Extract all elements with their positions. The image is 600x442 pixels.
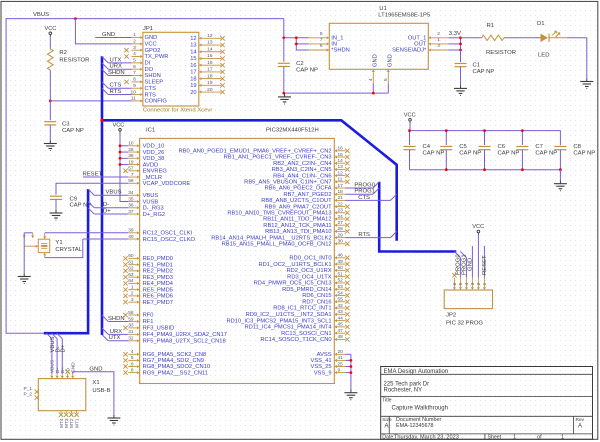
svg-text:12: 12 — [190, 36, 196, 42]
svg-text:RE4_PMD4: RE4_PMD4 — [143, 281, 174, 287]
svg-text:25: 25 — [338, 361, 344, 367]
wire X1 GND pin to ground — [73, 372, 114, 415]
svg-text:LED: LED — [538, 53, 549, 59]
svg-text:PROG1: PROG1 — [354, 189, 375, 195]
svg-text:15: 15 — [207, 53, 213, 59]
svg-text:TX_PWR: TX_PWR — [145, 54, 169, 60]
wire RESET to MCLR pin — [83, 176, 128, 178]
bus USB VBUS/D-/D+ vertical and bottom — [44, 189, 88, 333]
capacitor C8 — [554, 131, 595, 170]
voltage regulator U1 outline — [329, 23, 428, 69]
svg-text:_MCLR: _MCLR — [142, 175, 163, 181]
svg-text:VCC: VCC — [404, 113, 416, 119]
wire LED to ground — [567, 38, 587, 79]
svg-text:3.3V: 3.3V — [449, 31, 461, 37]
svg-text:UTX: UTX — [110, 57, 122, 63]
svg-text:RD1_OC2__U1RTS_BCLK1: RD1_OC2__U1RTS_BCLK1 — [259, 262, 332, 268]
svg-text:VBUS: VBUS — [143, 193, 159, 199]
svg-text:VCAP_VDDCORE: VCAP_VDDCORE — [143, 181, 191, 187]
wire VBUS to JP1 pin 2 — [75, 19, 131, 44]
svg-text:RF5_PMA8_U2TX_SCL2_CN18: RF5_PMA8_U2TX_SCL2_CN18 — [143, 339, 226, 345]
svg-text:63: 63 — [128, 272, 134, 278]
svg-text:37: 37 — [128, 209, 134, 215]
svg-text:CAP NP: CAP NP — [296, 67, 318, 73]
net label SHDN at JP1 — [108, 70, 125, 76]
svg-text:19: 19 — [207, 80, 213, 86]
wire U1 IN tie — [296, 38, 308, 50]
ground below cap bank — [554, 181, 567, 191]
U1 left pin names — [331, 36, 350, 54]
svg-text:16: 16 — [190, 63, 196, 69]
reference designator JP2 — [446, 313, 456, 319]
svg-text:RB1_AN1_PGEC1_VREF-_CVREF-_CN3: RB1_AN1_PGEC1_VREF-_CVREF-_CN3 — [224, 155, 332, 161]
svg-text:3: 3 — [470, 282, 476, 285]
ground below crystal — [18, 273, 31, 283]
value label Connector for Xtend Xcevr — [143, 108, 212, 114]
svg-text:ENVREG: ENVREG — [143, 169, 168, 175]
wire CTS bus entry to JP1 — [102, 82, 132, 88]
svg-text:39: 39 — [128, 228, 134, 234]
svg-text:CAP NP: CAP NP — [62, 128, 84, 134]
svg-text:RB12_AN12_TCK_PMA11: RB12_AN12_TCK_PMA11 — [263, 223, 331, 229]
bus junction at IC1 top rail — [100, 119, 103, 122]
svg-text:26: 26 — [128, 147, 134, 153]
wire VBUS bus exit to X1 — [46, 333, 52, 374]
LED D1 — [537, 21, 567, 59]
svg-text:CTS: CTS — [110, 83, 122, 89]
svg-text:RD3_OC4_U1TX: RD3_OC4_U1TX — [287, 274, 332, 280]
USB connector X1 outline — [38, 379, 86, 411]
svg-text:GPO2: GPO2 — [145, 48, 161, 54]
wire cap bank to ground — [559, 170, 561, 181]
ground below C1 — [454, 85, 467, 95]
svg-text:EMA-12345678: EMA-12345678 — [396, 423, 433, 429]
svg-text:URX: URX — [110, 64, 123, 70]
ground below IC1 VSS — [344, 390, 357, 400]
svg-text:URX: URX — [110, 329, 123, 335]
IC1 left pin stubs — [128, 144, 139, 374]
svg-text:RB7_AN7_PGED2: RB7_AN7_PGED2 — [283, 192, 331, 198]
svg-text:Connector for Xtend Xcevr: Connector for Xtend Xcevr — [143, 108, 212, 114]
net label RTS at IC1 — [358, 232, 370, 238]
svg-text:22: 22 — [338, 201, 344, 207]
svg-text:Date:: Date: — [382, 435, 394, 441]
IC1 right pin names — [179, 149, 333, 377]
wire D- bus entry to IC1 — [88, 202, 128, 208]
svg-text:Thursday, March 23, 2023: Thursday, March 23, 2023 — [394, 435, 459, 441]
svg-text:VCC: VCC — [145, 42, 157, 48]
wire UTX bus entry to IC1 RF pin — [102, 335, 128, 341]
svg-text:RC15_OSC2_CLKO: RC15_OSC2_CLKO — [143, 237, 196, 243]
net label GND at X1 — [89, 366, 102, 372]
svg-text:6: 6 — [320, 43, 323, 49]
svg-text:C7: C7 — [535, 144, 543, 150]
svg-text:C3: C3 — [62, 122, 70, 128]
title block address — [384, 381, 430, 393]
svg-text:30: 30 — [338, 239, 344, 245]
svg-text:VDD_26: VDD_26 — [143, 150, 165, 156]
JP1 left pin numbers 1-11 — [130, 32, 136, 101]
svg-text:10: 10 — [128, 141, 134, 147]
svg-text:CRYSTAL: CRYSTAL — [55, 247, 82, 253]
JP2 no-connect X pin 6 — [452, 273, 456, 277]
svg-text:DO: DO — [145, 67, 154, 73]
svg-text:RD8_IC1_RTCC_INT1: RD8_IC1_RTCC_INT1 — [273, 306, 331, 312]
svg-text:11: 11 — [338, 177, 343, 183]
net label D+ at IC1 — [103, 208, 111, 214]
wire U1 outputs tie — [448, 38, 460, 50]
svg-text:GND: GND — [373, 54, 379, 67]
svg-text:1: 1 — [561, 435, 564, 441]
svg-text:61: 61 — [128, 259, 134, 265]
svg-text:14: 14 — [338, 158, 344, 164]
svg-text:U1: U1 — [379, 6, 387, 12]
IC1 right no-connect X marks — [345, 149, 349, 342]
svg-text:C9: C9 — [70, 196, 78, 202]
svg-text:Capture Walkthrough: Capture Walkthrough — [392, 406, 448, 412]
svg-text:Title: Title — [382, 398, 391, 404]
JP1 no-connect X pins 3 4 8 — [124, 48, 128, 84]
svg-text:60: 60 — [128, 253, 134, 259]
svg-text:8: 8 — [131, 367, 134, 373]
svg-text:18: 18 — [207, 73, 213, 79]
svg-text:PIC32MX440F512H: PIC32MX440F512H — [266, 128, 319, 134]
svg-text:50: 50 — [338, 265, 344, 271]
reference designator U1 — [379, 6, 387, 12]
svg-text:4: 4 — [368, 78, 374, 81]
svg-text:UTX: UTX — [109, 335, 121, 341]
svg-text:9: 9 — [133, 83, 136, 89]
svg-text:RD10_IC3_PMCS2_PMA15_INT3_SCL1: RD10_IC3_PMCS2_PMA15_INT3_SCL1 — [226, 318, 331, 324]
svg-text:52: 52 — [338, 278, 344, 284]
svg-text:RB8_AN8_U2CTS_C1OUT: RB8_AN8_U2CTS_C1OUT — [261, 198, 332, 204]
svg-text:24: 24 — [338, 214, 344, 220]
svg-text:16: 16 — [338, 146, 344, 152]
svg-text:D-: D- — [55, 368, 61, 373]
svg-text:R2: R2 — [59, 50, 67, 56]
svg-text:RD7_CN16: RD7_CN16 — [302, 299, 331, 305]
power symbol VCC at IC1 — [113, 122, 125, 133]
svg-text:12: 12 — [207, 33, 213, 39]
svg-text:CONFIG: CONFIG — [145, 99, 168, 105]
svg-text:VCC: VCC — [45, 26, 57, 32]
net label RESET at MCLR — [83, 171, 103, 177]
net label CTS at IC1 — [358, 195, 370, 201]
svg-text:SENSE/ADJ*: SENSE/ADJ* — [392, 48, 427, 54]
IC1 left pin numbers — [128, 141, 134, 374]
svg-text:17: 17 — [190, 70, 196, 76]
svg-text:RD4_PMWR_OC5_IC5_CN13: RD4_PMWR_OC5_IC5_CN13 — [254, 281, 332, 287]
svg-text:6: 6 — [131, 361, 134, 367]
svg-text:Rochester, NY: Rochester, NY — [384, 388, 423, 394]
svg-text:RTS: RTS — [145, 92, 157, 98]
svg-text:5: 5 — [131, 355, 134, 361]
wire RTS bus entry to JP1 — [102, 88, 132, 94]
svg-text:2: 2 — [476, 282, 482, 285]
svg-text:RD0_OC1_INT0: RD0_OC1_INT0 — [289, 256, 331, 262]
svg-text:Size: Size — [382, 417, 392, 423]
svg-text:VBUS: VBUS — [50, 360, 56, 373]
value label PIC 32 PROG — [446, 320, 483, 326]
resistor R2 — [47, 49, 89, 70]
net label VBUS — [33, 12, 49, 18]
svg-text:RE7_PMD7: RE7_PMD7 — [143, 300, 173, 306]
junction R2/C3/CONFIG node — [49, 100, 52, 103]
wire node to JP1 CONFIG pin 11 — [50, 100, 131, 102]
svg-text:SHDN: SHDN — [108, 316, 125, 322]
svg-text:D+_RG2: D+_RG2 — [143, 212, 166, 218]
svg-text:C2: C2 — [296, 61, 304, 67]
svg-text:14: 14 — [207, 46, 213, 52]
svg-text:D-_RG3: D-_RG3 — [143, 206, 164, 212]
power symbol VCC at JP2 — [472, 224, 484, 235]
wire VSS pins to ground — [346, 354, 351, 389]
svg-text:RB6_AN6_PGEC2_OCFA: RB6_AN6_PGEC2_OCFA — [264, 186, 331, 192]
svg-text:2: 2 — [437, 31, 440, 37]
svg-text:CAP NP: CAP NP — [459, 150, 481, 156]
connector JP2 outline — [444, 290, 492, 309]
svg-text:RB4_AN4_C1IN-_CN6: RB4_AN4_C1IN-_CN6 — [273, 173, 331, 179]
U1 left pin stubs — [309, 36, 330, 51]
net label CTS at JP1 — [110, 83, 122, 89]
wire cap bank bottom rail — [410, 169, 561, 171]
X1 no-connect X on ID pin — [65, 370, 69, 374]
wire PROG1 bus to JP2 pin 4 — [460, 252, 466, 278]
U1 right pin names — [392, 36, 427, 54]
capacitor C3 — [44, 122, 84, 134]
svg-text:GND: GND — [102, 32, 115, 38]
reference designator X1 — [92, 380, 99, 386]
wire C9 to ground — [55, 199, 57, 209]
wire R1 to LED — [504, 37, 541, 39]
power symbol VCC at cap bank — [404, 113, 416, 123]
svg-text:1: 1 — [131, 284, 134, 290]
svg-text:4: 4 — [464, 282, 470, 285]
svg-text:53: 53 — [338, 284, 344, 290]
wire VCC to JP2 pin 2 — [477, 235, 479, 278]
ground below X1 — [107, 415, 120, 425]
svg-text:RTS: RTS — [358, 232, 370, 238]
svg-text:21: 21 — [338, 195, 344, 201]
svg-text:VBUS: VBUS — [33, 12, 49, 18]
crystal Y1 — [24, 233, 83, 258]
IC1 left no-connect X marks — [123, 169, 127, 375]
svg-text:D1: D1 — [537, 21, 545, 27]
svg-text:RTS: RTS — [110, 89, 122, 95]
svg-text:RE3_PMD3: RE3_PMD3 — [143, 275, 173, 281]
net label VBUS at IC1 — [106, 190, 122, 196]
svg-text:VSS_41: VSS_41 — [310, 358, 331, 364]
wire U1 ground rail — [284, 83, 389, 93]
wire CTS from IC1 to bus — [346, 194, 397, 200]
svg-text:IC1: IC1 — [146, 128, 155, 134]
svg-text:GND: GND — [89, 366, 102, 372]
svg-text:41: 41 — [338, 355, 344, 361]
svg-text:3: 3 — [437, 43, 440, 49]
junction VBUS at JP1 drop — [74, 17, 77, 20]
svg-text:38: 38 — [128, 153, 134, 159]
svg-text:D+: D+ — [61, 344, 67, 352]
wire RTS from IC1 to bus — [346, 231, 397, 237]
svg-text:OUT_1: OUT_1 — [408, 36, 427, 42]
svg-text:2: 2 — [131, 291, 134, 297]
svg-text:SLEEP: SLEEP — [145, 80, 164, 86]
connector JP1 outline — [143, 32, 199, 106]
capacitor C5 — [440, 131, 481, 170]
svg-text:7: 7 — [133, 70, 136, 76]
wire VBUS top and left edge — [6, 19, 284, 334]
svg-text:13: 13 — [338, 164, 344, 170]
junctions U1 IN tie — [295, 36, 298, 45]
X1 top pin stubs — [50, 374, 74, 379]
svg-text:RD9_IC2__U1CTS__INT2_SDA1: RD9_IC2__U1CTS__INT2_SDA1 — [246, 312, 332, 318]
svg-text:C8: C8 — [573, 144, 581, 150]
svg-text:AVSS: AVSS — [317, 352, 332, 358]
U1 bottom pin names GND GND — [373, 54, 394, 67]
JP1 right no-connect X marks — [220, 36, 224, 94]
bus JP1 signals vertical — [101, 56, 104, 335]
svg-text:RG6_PMA5_SCK2_CN8: RG6_PMA5_SCK2_CN8 — [143, 352, 207, 358]
svg-text:5: 5 — [458, 282, 464, 285]
X1 mount pins MT1-MT4 — [59, 411, 81, 428]
resistor R1 — [482, 23, 517, 56]
svg-text:6: 6 — [452, 282, 458, 285]
svg-text:RB14_AN14_PMALH_PMA1__U2RTS_BC: RB14_AN14_PMALH_PMA1__U2RTS_BCLK2 — [211, 235, 331, 241]
IC1 right pin numbers — [338, 146, 344, 374]
junctions VDD pins — [119, 144, 122, 166]
svg-text:MT3: MT3 — [64, 418, 70, 428]
ground below LED — [580, 78, 593, 88]
capacitor C2 — [278, 61, 318, 73]
svg-text:VCC: VCC — [472, 224, 484, 230]
svg-text:12: 12 — [338, 170, 344, 176]
wire D+ bus exit to X1 — [57, 333, 63, 374]
svg-text:RC12_OSC1_CLKI: RC12_OSC1_CLKI — [143, 231, 193, 237]
svg-text:CAP NP: CAP NP — [573, 150, 595, 156]
capacitor C4 — [404, 131, 445, 170]
svg-text:Rev: Rev — [576, 417, 585, 423]
svg-text:SHDN: SHDN — [108, 70, 125, 76]
svg-text:32: 32 — [128, 336, 134, 342]
junction at U1 IN_1 — [282, 36, 285, 39]
svg-text:LT1965EMS8E-1P5: LT1965EMS8E-1P5 — [378, 12, 431, 18]
svg-text:RB2_AN2_C2IN-_CN4: RB2_AN2_C2IN-_CN4 — [273, 161, 332, 167]
net label D+ at X1 — [61, 344, 67, 352]
svg-text:4: 4 — [133, 51, 136, 57]
svg-text:P_2: P_2 — [24, 391, 33, 397]
wire SHDN bus entry to JP1 — [102, 69, 132, 75]
wire output to C1 — [460, 50, 462, 62]
svg-text:RC14_SOSCO_T1CK_CN0: RC14_SOSCO_T1CK_CN0 — [260, 337, 331, 343]
svg-text:44: 44 — [338, 315, 344, 321]
svg-text:Sheet: Sheet — [488, 435, 502, 441]
svg-text:RE2_PMD2: RE2_PMD2 — [143, 269, 173, 275]
bus IC1 top horizontal to right side — [102, 120, 397, 241]
wire D- bus exit to X1 — [52, 333, 58, 374]
svg-text:Y1: Y1 — [55, 240, 62, 246]
svg-text:20: 20 — [190, 90, 196, 96]
net label 3.3V — [449, 31, 461, 37]
title block size and document number — [382, 417, 584, 430]
svg-text:of: of — [537, 435, 542, 441]
svg-text:RESET: RESET — [83, 171, 103, 177]
U1 bottom pin numbers 4 5 — [368, 78, 389, 81]
capacitor C1 — [455, 63, 495, 75]
svg-text:42: 42 — [338, 303, 344, 309]
svg-text:CTS: CTS — [145, 86, 157, 92]
svg-text:35: 35 — [128, 196, 134, 202]
svg-text:40: 40 — [128, 234, 134, 240]
JP1 right pin names 12-20 — [190, 36, 197, 96]
svg-text:34: 34 — [128, 190, 134, 196]
net label RTS at JP1 — [110, 89, 122, 95]
ground below C9 — [50, 210, 63, 220]
svg-text:C1: C1 — [473, 63, 481, 69]
svg-text:19: 19 — [190, 83, 196, 89]
svg-text:20: 20 — [338, 349, 344, 355]
wire URX bus entry to JP1 — [102, 63, 132, 69]
capacitor C6 — [479, 131, 520, 170]
svg-text:D-: D- — [103, 202, 109, 208]
svg-text:15: 15 — [190, 56, 196, 62]
U1 left pin numbers 8 7 6 — [320, 31, 323, 49]
svg-text:RB5_AN5_VBUSON_C1IN+_CN7: RB5_AN5_VBUSON_C1IN+_CN7 — [244, 180, 331, 186]
svg-text:23: 23 — [338, 208, 344, 214]
net label GND at JP1 — [102, 32, 115, 38]
value label PIC32MX440F512H — [266, 128, 319, 134]
svg-text:15: 15 — [338, 152, 344, 158]
svg-text:VSS_25: VSS_25 — [310, 364, 331, 370]
U1 bottom pin stubs 4 5 — [372, 69, 390, 83]
wire R2 to junction — [49, 70, 51, 101]
svg-text:RESISTOR: RESISTOR — [59, 58, 89, 64]
svg-text:46: 46 — [338, 253, 344, 259]
IC1 right pin stubs — [334, 149, 345, 374]
wire VCC to R2 — [49, 37, 51, 49]
wire crystal to ground — [23, 233, 25, 273]
junctions U1 ground rail — [282, 92, 374, 95]
wire VBUS into U1 IN pins — [284, 19, 309, 38]
svg-text:8: 8 — [133, 77, 136, 83]
svg-text:OUT: OUT — [414, 42, 427, 48]
net label SHDN at IC1 — [108, 316, 125, 322]
svg-text:33: 33 — [128, 323, 134, 329]
svg-text:1: 1 — [513, 435, 516, 441]
svg-text:RD11_IC4_PMCS1_PMA14_INT4: RD11_IC4_PMCS1_PMA14_INT4 — [244, 325, 332, 331]
svg-text:VUSB: VUSB — [143, 199, 159, 205]
svg-text:18: 18 — [338, 189, 344, 195]
svg-text:RE5_PMD5: RE5_PMD5 — [143, 287, 173, 293]
svg-text:6: 6 — [133, 64, 136, 70]
svg-text:C4: C4 — [423, 144, 431, 150]
net label PROG0 at JP2 — [456, 254, 462, 275]
svg-text:17: 17 — [207, 67, 213, 73]
title block company — [384, 369, 449, 375]
net label RESET at JP2 — [482, 255, 488, 275]
wire PROG0 from IC1 to bus — [346, 182, 380, 188]
svg-text:RD2_OC3_U1RX: RD2_OC3_U1RX — [287, 268, 332, 274]
svg-text:RB9_AN9_PMA7_C2OUT: RB9_AN9_PMA7_C2OUT — [264, 204, 332, 210]
svg-text:7: 7 — [131, 172, 134, 178]
svg-text:VBUS: VBUS — [106, 190, 122, 196]
svg-text:AVDD: AVDD — [143, 162, 159, 168]
JP1 right pin numbers 12-20 — [207, 33, 213, 93]
svg-text:43: 43 — [338, 309, 344, 315]
title block date and sheet — [382, 435, 564, 441]
svg-text:IN_1: IN_1 — [331, 36, 343, 42]
svg-text:20: 20 — [207, 87, 213, 93]
svg-text:USB-B: USB-B — [92, 388, 110, 394]
